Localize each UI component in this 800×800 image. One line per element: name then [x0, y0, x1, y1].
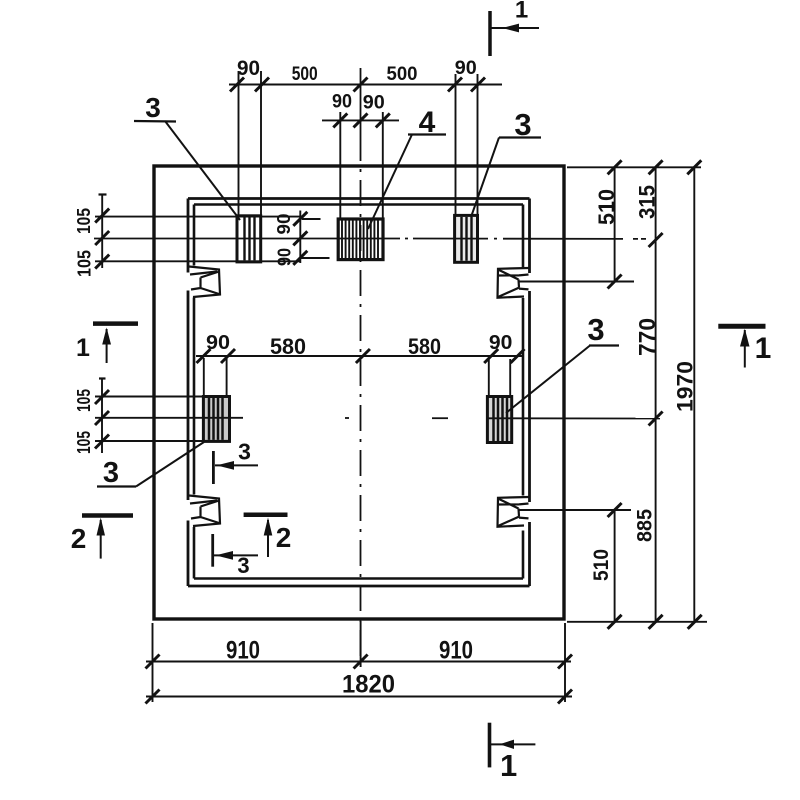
section mark 3 inner bottom — [213, 534, 258, 578]
right dimension line 315/770/885 — [655, 167, 657, 622]
inner opening outer contour — [188, 199, 530, 587]
svg-text:105: 105 — [75, 250, 95, 277]
svg-text:3: 3 — [103, 457, 119, 489]
svg-text:1: 1 — [755, 332, 772, 365]
leader label 3 mid-right — [506, 312, 619, 413]
svg-text:500: 500 — [387, 63, 418, 85]
svg-text:580: 580 — [270, 334, 306, 359]
leader label 3 top-left — [134, 92, 240, 220]
svg-text:90: 90 — [363, 92, 385, 114]
svg-text:910: 910 — [226, 637, 260, 665]
svg-text:1: 1 — [76, 334, 90, 362]
svg-text:90: 90 — [206, 332, 230, 354]
outer panel outline — [154, 166, 564, 619]
svg-text:3: 3 — [237, 553, 249, 578]
vent hole H2 top-middle hatched — [338, 219, 383, 260]
svg-text:885: 885 — [634, 509, 657, 542]
keyway notch left bottom — [189, 496, 220, 527]
svg-text:90: 90 — [274, 248, 294, 266]
svg-text:105: 105 — [74, 208, 94, 234]
svg-text:1820: 1820 — [342, 671, 395, 699]
svg-text:3: 3 — [238, 439, 251, 465]
leader label 3 mid-left — [97, 442, 204, 489]
vent hole H5 mid-right hatched — [487, 397, 511, 443]
vertical center axis — [360, 68, 362, 662]
keyway notch left top — [189, 267, 220, 298]
svg-text:3: 3 — [145, 92, 161, 123]
horizontal axis top row — [94, 238, 660, 240]
top dimension line 90/90 middle — [322, 112, 399, 219]
top dimension line 90/500/500/90 — [229, 71, 502, 215]
section mark 1 top — [490, 0, 539, 56]
horizontal axis mid row — [95, 417, 660, 420]
leader label 3 top-right — [471, 107, 541, 217]
svg-text:770: 770 — [634, 318, 660, 356]
svg-text:1970: 1970 — [673, 361, 698, 412]
svg-text:510: 510 — [594, 189, 619, 225]
vent hole H3 top-right hatched — [455, 215, 478, 262]
bottom dimension 910/910 — [146, 621, 572, 702]
svg-text:105: 105 — [74, 431, 94, 454]
section mark 1 left — [76, 324, 138, 363]
keyway notch right top — [498, 268, 529, 298]
right dimension line 510 top and 510 bottom — [614, 167, 616, 622]
vent hole H1 top-left hatched — [237, 216, 261, 262]
svg-text:1: 1 — [515, 0, 528, 24]
svg-text:500: 500 — [292, 63, 318, 85]
svg-text:3: 3 — [587, 312, 604, 347]
section mark 1 bottom — [490, 723, 536, 783]
svg-text:90: 90 — [489, 332, 513, 354]
section mark 3 inner top — [213, 439, 258, 485]
left mid dimension 105/105 — [95, 378, 205, 453]
section mark 2 inner — [244, 515, 292, 557]
svg-text:315: 315 — [635, 185, 660, 219]
middle dimension line 90/580/580/90 — [196, 356, 524, 396]
svg-text:580: 580 — [408, 334, 441, 359]
section mark 2 left — [71, 516, 133, 559]
svg-text:90: 90 — [274, 214, 294, 235]
svg-text:510: 510 — [590, 549, 613, 581]
svg-text:2: 2 — [276, 522, 292, 553]
right side extension lines — [519, 167, 707, 622]
left top dimension 105/105 — [95, 194, 302, 268]
right dimension line 1970 — [693, 167, 695, 622]
svg-text:910: 910 — [439, 637, 473, 665]
inner opening inner contour — [194, 205, 523, 579]
left 90/90 vertical dimension near H1 — [300, 211, 329, 264]
leader label 4 top-middle — [368, 106, 446, 229]
svg-text:90: 90 — [332, 91, 352, 113]
svg-text:2: 2 — [71, 523, 87, 554]
keyway notch right bottom — [498, 497, 529, 527]
svg-text:105: 105 — [74, 389, 94, 412]
vent hole H4 mid-left hatched — [203, 397, 229, 442]
svg-text:1: 1 — [500, 748, 517, 783]
svg-text:90: 90 — [455, 57, 477, 79]
svg-text:90: 90 — [237, 57, 260, 80]
section mark 1 right — [718, 326, 771, 367]
